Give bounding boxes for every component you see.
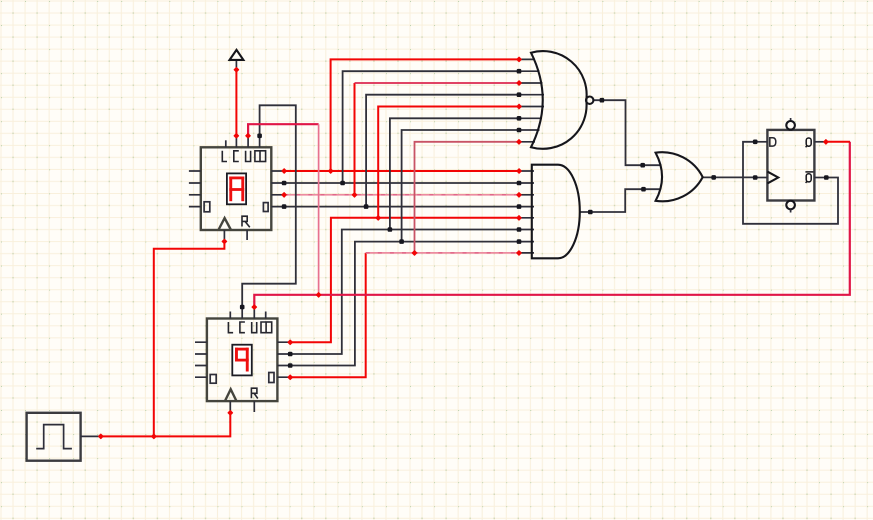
counter U1 seven segment display frame bbox=[227, 173, 246, 204]
wire OR output to flip-flop clock input bbox=[703, 176, 754, 178]
counter U2 right indicator rectangle bbox=[269, 373, 274, 383]
clock source output stub bbox=[81, 435, 101, 437]
node NOR input 2 pin bbox=[517, 69, 522, 74]
OR gate U5 body bbox=[656, 152, 703, 201]
node flip-flop Qbar pin bbox=[824, 175, 829, 180]
NOR gate U3 output bubble bbox=[586, 97, 593, 104]
counter U2 reset pin stub R bbox=[253, 401, 255, 412]
wire net A1 tap vertical red bbox=[354, 83, 356, 195]
wire VDD to counter1 C enable pin bbox=[235, 70, 237, 136]
counter U1 pin stub L bbox=[225, 140, 227, 147]
wire net B0 tap up to NOR input 8 bbox=[415, 142, 520, 253]
wire net B3 tap up to NOR input 5 bbox=[378, 107, 519, 218]
node B2 tap junction bbox=[388, 227, 393, 232]
node VDD pin bbox=[233, 67, 239, 73]
wire net A3 tap up to NOR input 1 bbox=[331, 59, 519, 171]
wire net B2 riser from counter2 Q2 and horizontal to AND input 6 bbox=[290, 230, 519, 355]
node counter1 C pin bbox=[233, 133, 239, 139]
node counter1 Q2 pin bbox=[282, 181, 287, 186]
wire flip-flop Q output red bbox=[826, 141, 850, 143]
wire up-down net from counter1 U pin over to vertical bbox=[248, 124, 319, 136]
counter U1 left indicator rectangle bbox=[204, 202, 210, 212]
flip-flop U6 D input stub bbox=[754, 141, 768, 143]
counter U1 pin stub U bbox=[247, 136, 249, 148]
node OR output pin bbox=[711, 175, 716, 180]
counter U2 pin stub C bbox=[241, 307, 243, 319]
node counter2 Q0 pin bbox=[287, 374, 293, 380]
flip-flop U6 clock triangle marker bbox=[767, 172, 778, 184]
wire net B3 riser from counter2 Q3 and horizontal to AND input 5 bbox=[290, 218, 519, 342]
flip-flop U6 clear circle bottom with stub bbox=[786, 201, 795, 210]
node AND input 5 pin bbox=[516, 215, 522, 221]
wire net A3 horizontal counter1 Q3 to AND input 1 bbox=[284, 170, 519, 172]
counter U1 digit A segment g middle bar bbox=[229, 188, 244, 191]
wire net B1 riser from counter2 Q1 and horizontal to AND input 7 bbox=[290, 242, 519, 366]
flip-flop U6 clear stub bbox=[790, 209, 792, 212]
flip-flop U6 Q output stub bbox=[814, 141, 826, 143]
counter U2 pin stub U bbox=[253, 307, 255, 319]
wire net A1 horizontal to NOR input 3 bbox=[355, 82, 520, 84]
node counter2 clock pin bbox=[227, 410, 233, 416]
wire net A2 tap up to NOR input 2 bbox=[343, 71, 519, 183]
flip-flop U6 D label bbox=[770, 138, 776, 146]
counter U2 digit 9 segment a top bar bbox=[235, 348, 249, 351]
counter U1 digit A segment a top bar bbox=[229, 177, 244, 180]
wire flip-flop Qbar feedback loop to D input bbox=[743, 142, 838, 224]
flip-flop U6 preset stub top bbox=[790, 118, 792, 121]
counter U2 body bbox=[207, 319, 278, 402]
counter U1 reset label R bbox=[242, 216, 250, 227]
wire clock source to counters bbox=[101, 413, 231, 437]
node A1 tap junction bbox=[351, 192, 357, 198]
wire VDD pin stub bbox=[235, 60, 237, 70]
counter U1 input stubs left unconnected bbox=[189, 171, 201, 207]
node clock line branch junction bbox=[151, 433, 157, 439]
node A2 tap junction bbox=[340, 181, 345, 186]
counter U1 body bbox=[201, 147, 271, 230]
counter U1 output stubs right bbox=[271, 171, 284, 207]
counter U2 pin stub L bbox=[229, 312, 231, 319]
node flip-flop clock pin bbox=[753, 175, 758, 180]
counter U1 digit A segment b top-right vertical bbox=[241, 177, 244, 202]
counter U2 clock pin stub bbox=[229, 401, 231, 413]
counter U2 seven segment display frame bbox=[232, 345, 252, 376]
AND gate U4 input stubs bbox=[519, 171, 534, 253]
flip-flop U6 body bbox=[767, 130, 814, 201]
wire up-down net long crimson horizontal from counter2 U pin to flip-flop Q bbox=[254, 142, 850, 307]
node AND output pin bbox=[588, 210, 593, 215]
node counter1 Q3 pin bbox=[281, 168, 287, 174]
NOR gate U3 input stubs bbox=[519, 59, 544, 141]
counter U1 digit A segment f top-left vertical bbox=[229, 177, 232, 202]
counter U2 digit 9 segment b right vertical bbox=[246, 348, 249, 372]
counter U1 reset pin stub R bbox=[246, 230, 248, 240]
wire net B1 tap up to NOR input 7 bbox=[402, 130, 519, 242]
node crimson net junction bbox=[316, 292, 322, 298]
junction red dots bbox=[98, 56, 829, 439]
wire net A0 horizontal counter1 Q0 to AND input 4 bbox=[284, 206, 519, 208]
node B0 tap junction bbox=[411, 250, 417, 256]
node A0 tap junction bbox=[364, 204, 369, 209]
counter U2 reset label R bbox=[251, 388, 257, 398]
node counter2 U pin bbox=[251, 304, 257, 310]
counter U2 digit 9 segment g middle bar bbox=[235, 359, 249, 362]
clock source body bbox=[27, 413, 81, 461]
NOR gate U3 body bbox=[531, 51, 587, 149]
counter U1 clock pin stub bbox=[223, 230, 225, 242]
flip-flop U6 Q label bbox=[806, 138, 812, 147]
counter U1 pin stub CO bbox=[259, 136, 261, 148]
node AND input 3 pin bbox=[516, 192, 522, 198]
flip-flop U6 Qbar output stub bbox=[814, 177, 826, 179]
node counter1 Q1 pin bbox=[281, 192, 287, 198]
wire counter1 CO carry out over the top down to counter2 C pin bbox=[242, 105, 296, 307]
counter U2 left indicator rectangle bbox=[210, 375, 216, 384]
flip-flop U6 preset circle top bbox=[786, 121, 795, 130]
wire net A0 tap up to NOR input 4 bbox=[366, 95, 519, 207]
counter U2 pin stub CO bbox=[265, 312, 267, 319]
wire AND output corner up to OR input 2 bbox=[580, 189, 661, 212]
node AND input 8 pin bbox=[516, 250, 522, 256]
node B1 tap junction bbox=[399, 239, 404, 244]
node NOR input 4 pin bbox=[517, 92, 522, 97]
node NOR output pin bbox=[600, 98, 605, 103]
wire net B0 riser red from counter2 Q0 bbox=[290, 253, 366, 377]
node NOR input 6 pin bbox=[517, 116, 522, 121]
flip-flop U6 Qbar label with overline bbox=[805, 172, 813, 183]
node AND input 6 pin bbox=[517, 227, 522, 232]
node counter1 Q0 pin bbox=[282, 204, 287, 209]
node counter2 C pin bbox=[240, 305, 245, 310]
junction black dots bbox=[240, 69, 829, 368]
counter U2 top labels L C U CO bbox=[228, 322, 271, 333]
wire NOR output corner down to OR input 1 bbox=[593, 100, 661, 165]
wire net B2 tap up to NOR input 6 bbox=[390, 118, 519, 229]
wire clock branch to counter1 clock pin bbox=[154, 242, 225, 437]
node counter2 Q3 pin bbox=[287, 339, 293, 345]
node AND input 4 pin bbox=[517, 204, 522, 209]
counter U1 right indicator rectangle bbox=[263, 203, 268, 212]
node A3 tap junction bbox=[328, 168, 334, 174]
node counter1 CO pin bbox=[257, 134, 262, 139]
node NOR input 5 pin bbox=[516, 103, 522, 109]
node counter1 clock pin bbox=[221, 238, 227, 244]
wire net A2 horizontal counter1 Q2 to AND input 2 bbox=[284, 182, 519, 184]
node OR input 1 pin bbox=[640, 163, 645, 168]
node AND input 7 pin bbox=[517, 239, 522, 244]
node AND input 1 pin bbox=[516, 168, 522, 174]
node flip-flop D pin bbox=[753, 140, 758, 145]
node clock output pin bbox=[98, 433, 104, 439]
counter U1 top labels L C U CO bbox=[222, 151, 265, 162]
node counter2 Q2 pin bbox=[288, 352, 293, 357]
counter U1 pin stub C bbox=[235, 136, 237, 148]
node counter1 U pin bbox=[245, 133, 251, 139]
counter U2 output stubs right bbox=[277, 342, 290, 377]
node OR input 2 pin bbox=[641, 187, 646, 192]
wire up-down net pink vertical drop bbox=[318, 124, 320, 295]
node NOR input 3 pin bbox=[516, 80, 522, 86]
node NOR input 8 pin bbox=[516, 139, 522, 145]
counter U2 input stubs left unconnected bbox=[195, 342, 207, 377]
power VDD supply symbol bbox=[230, 50, 244, 60]
counter U1 clock triangle marker bbox=[218, 218, 231, 230]
clock source pulse waveform bbox=[36, 425, 72, 449]
counter U2 clock triangle marker bbox=[225, 389, 237, 401]
AND gate U4 body bbox=[532, 165, 580, 259]
wire net A1 horizontal counter1 Q1 to AND input 3 bbox=[284, 194, 519, 196]
counter U2 digit 9 segment f top-left vertical bbox=[235, 348, 238, 361]
node NOR input 7 pin bbox=[517, 128, 522, 133]
node NOR input 1 pin bbox=[516, 56, 522, 62]
node flip-flop Q pin bbox=[823, 139, 829, 145]
flip-flop U6 clock input stub bbox=[754, 177, 768, 179]
node B3 tap junction bbox=[375, 215, 381, 221]
node counter2 Q1 pin bbox=[288, 363, 293, 368]
node AND input 2 pin bbox=[517, 181, 522, 186]
wire net B0 horizontal pink to AND input 8 bbox=[366, 252, 519, 254]
